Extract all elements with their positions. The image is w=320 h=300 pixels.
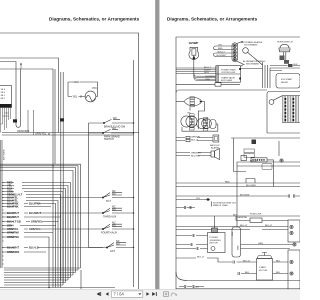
wires to oval [216, 46, 233, 57]
svg-text:GRN/YEL: GRN/YEL [31, 219, 43, 223]
connector oval P2 [214, 41, 245, 65]
svg-text:NO: NO [113, 117, 117, 120]
svg-text:POWER: POWER [210, 237, 219, 239]
svg-text:BLK: BLK [294, 64, 299, 66]
svg-text:NO: NO [112, 208, 116, 211]
svg-text:GRN/YEL: GRN/YEL [7, 227, 19, 231]
relay backup alarm [213, 135, 219, 142]
long wires lower [176, 183, 300, 187]
svg-text:ALTERNATOR W/REG: ALTERNATOR W/REG [243, 60, 266, 63]
svg-text:BLK-LT: BLK-LT [191, 139, 199, 141]
svg-text:BLU/GRN: BLU/GRN [246, 185, 256, 187]
svg-text:AIR INTAKE HEATER: AIR INTAKE HEATER [241, 41, 263, 44]
svg-text:ORN/ORN: ORN/ORN [17, 129, 29, 133]
wires to psm [176, 236, 208, 249]
page title left [49, 17, 140, 22]
svg-text:HORN SWITCH: HORN SWITCH [277, 42, 293, 44]
svg-text:BLK-LT: BLK-LT [265, 225, 273, 227]
wire BLU/WHT to LIFT [2, 247, 103, 249]
wire ORN/PNK [2, 232, 53, 234]
svg-text:GRN: GRN [258, 243, 263, 245]
enclosure lower lip [176, 90, 267, 93]
connector J1 pin row [0, 104, 12, 107]
svg-text:GRN/ORN: GRN/ORN [7, 250, 19, 254]
wire below PT box [176, 83, 240, 85]
svg-text:BLK-LT: BLK-LT [240, 225, 248, 227]
wire YEL [2, 186, 68, 281]
svg-text:7 / 64: 7 / 64 [114, 292, 125, 297]
wire RED to lamp [68, 82, 98, 97]
wire BLU/WHT to THIRD AUX [2, 212, 89, 214]
wire YEL to lamp [68, 95, 85, 98]
battery junction box right [176, 220, 300, 242]
tool icon 1 [164, 292, 169, 297]
svg-text:MOTOR: MOTOR [210, 243, 219, 245]
wire loop pair [20, 69, 22, 125]
svg-text:FUSE LINK: FUSE LINK [250, 214, 262, 216]
terminal circle [269, 100, 274, 105]
ignition switch S1 [189, 41, 199, 77]
svg-text:GRN/YEL: GRN/YEL [191, 136, 201, 138]
harness nested box tops [0, 164, 81, 275]
wire ORN/PNK 2 [2, 237, 49, 288]
svg-text:BLK: BLK [276, 260, 281, 262]
svg-text:BLU/WHT: BLU/WHT [7, 215, 19, 219]
svg-text:RED: RED [206, 79, 211, 81]
wire GRN/ORN [2, 251, 46, 253]
switch LIFT [103, 240, 134, 253]
svg-text:NO: NO [116, 243, 120, 246]
svg-text:THIRD AUX: THIRD AUX [103, 215, 117, 218]
svg-text:BLK-LT: BLK-LT [243, 260, 251, 262]
wire label column rows [2, 180, 103, 287]
page input box [111, 291, 143, 297]
wire top bus C [0, 69, 53, 288]
connector eye bundle [176, 97, 205, 115]
page title right [167, 17, 258, 22]
wire switch bus vertical [89, 123, 104, 248]
svg-text:GRN/WHT: GRN/WHT [191, 152, 202, 154]
harness outer box right [176, 37, 300, 290]
wire heater diagonal [248, 52, 263, 65]
svg-text:BLK-LT: BLK-LT [204, 67, 212, 69]
switch TILT [89, 190, 134, 203]
PT controller box [216, 66, 241, 83]
svg-text:FOURTH AUX: FOURTH AUX [101, 231, 117, 234]
svg-text:BLACK: BLACK [204, 69, 211, 72]
wire top bus A [0, 58, 59, 133]
wire BLU-LT-GB [2, 221, 59, 223]
wires start motor [176, 258, 288, 274]
svg-text:TRANS VALVE: TRANS VALVE [221, 77, 236, 80]
harness nested box bottoms [4, 268, 81, 285]
svg-text:BLU/WHT: BLU/WHT [7, 245, 19, 249]
splice S1 [13, 119, 17, 122]
svg-text:PIC: PIC [93, 86, 97, 90]
backup alarm wires [176, 135, 220, 150]
long wires mid right [231, 137, 300, 139]
wire lamp feed [67, 82, 69, 97]
svg-text:Diagrams, Schematics, or Arran: Diagrams, Schematics, or Arrangements [49, 17, 140, 22]
solenoid note [176, 198, 237, 207]
svg-text:Diagrams, Schematics, or Arran: Diagrams, Schematics, or Arrangements [167, 17, 258, 22]
svg-text:GRN: GRN [204, 72, 209, 74]
wire right inner vertical [133, 60, 135, 287]
svg-text:NO: NO [112, 193, 116, 196]
bottom sweep wire [176, 272, 300, 281]
speaker [176, 149, 220, 160]
svg-text:SWITCH: SWITCH [104, 138, 114, 141]
start motor [176, 250, 300, 290]
svg-text:4WD: 4WD [238, 245, 240, 250]
node arrow junction [20, 64, 22, 69]
wire GRY [2, 225, 56, 227]
svg-text:BLU/WHT: BLU/WHT [217, 55, 228, 57]
inline device on wire [215, 83, 221, 87]
connector J1 block [0, 86, 12, 108]
horn switch [277, 42, 293, 64]
wire top bus B [0, 62, 16, 126]
wire RED [2, 183, 71, 278]
page divider bar [155, 0, 160, 300]
svg-text:BLU/PNK: BLU/PNK [29, 201, 41, 205]
svg-text:BLU-LB: BLU-LB [29, 245, 39, 249]
prev page button [106, 292, 109, 296]
svg-text:ORN/PNK: ORN/PNK [7, 230, 19, 234]
svg-text:CONTROLLER: CONTROLLER [221, 72, 236, 74]
svg-text:WIRE IF USED: WIRE IF USED [213, 205, 228, 207]
next page button [146, 292, 149, 296]
wire vertical pair x56 [55, 69, 63, 283]
bottom inline connector [176, 287, 300, 289]
tool icon 2 [171, 293, 176, 296]
wire bottom verticals [80, 270, 82, 289]
connector block hatched [283, 96, 299, 123]
svg-text:BLU/WHT: BLU/WHT [7, 211, 19, 215]
svg-text:BLU/PNK: BLU/PNK [7, 204, 19, 208]
wire BLU/GRN w connector [176, 195, 300, 197]
last page button [152, 292, 157, 296]
svg-text:NO: NO [112, 127, 116, 130]
svg-text:RED: RED [225, 181, 230, 183]
solenoid right column [232, 227, 296, 257]
svg-text:NO: NO [112, 224, 116, 227]
wire BLU/PNK [2, 204, 56, 288]
alternator label [241, 60, 266, 67]
battery block lower [288, 250, 300, 290]
svg-text:BLK-LT: BLK-LT [197, 256, 205, 258]
junction bundle [241, 62, 301, 88]
wire BLK [2, 189, 66, 283]
harness outer box [0, 33, 139, 289]
wires from J1 pins [1, 108, 11, 133]
wire BLK long [176, 215, 300, 217]
svg-text:1B 4: 1B 4 [1, 89, 6, 91]
svg-text:SW DEMAND: SW DEMAND [244, 44, 258, 47]
svg-text:YEL: YEL [73, 95, 78, 99]
svg-text:SB DEMAND: SB DEMAND [246, 62, 259, 65]
wire GRN [2, 192, 63, 286]
svg-text:4X4 START: 4X4 START [281, 78, 293, 81]
horn terminal blobs [280, 56, 285, 61]
svg-text:BLK: BLK [195, 286, 200, 288]
vertical label WHT/ORN [4, 149, 6, 160]
svg-text:BLK-LT: BLK-LT [218, 51, 226, 53]
wire ORN/ORN [2, 132, 139, 134]
svg-text:BLU/BRN: BLU/BRN [206, 76, 216, 78]
svg-text:LIFT: LIFT [110, 250, 116, 253]
splice S2 [60, 118, 64, 121]
wire fan from ignition [194, 73, 216, 81]
svg-text:RED: RED [218, 48, 223, 50]
relay module sub-circuit [234, 138, 284, 187]
svg-text:GRN/YEL: GRN/YEL [29, 227, 41, 231]
gauge cluster [181, 111, 218, 131]
junction dots right border [48, 122, 134, 288]
svg-text:STEERING: STEERING [210, 240, 221, 242]
svg-text:1G5WP: 1G5WP [189, 41, 199, 45]
svg-text:MOTOR: MOTOR [259, 270, 268, 272]
svg-text:ORN/YEL: ORN/YEL [35, 132, 47, 136]
power steering motor [176, 216, 225, 253]
svg-text:GRN/PNK: GRN/PNK [237, 217, 248, 219]
wire BLU/YEL 2 [2, 201, 58, 288]
svg-text:BLU/YEL: BLU/YEL [191, 155, 201, 157]
corner jog [246, 179, 255, 184]
wire ORN/YEL [2, 134, 134, 136]
relay AIR INTAKE HEATER [241, 41, 263, 65]
wire BLU/WHT 2 [2, 216, 61, 218]
switch BRAKE FLUID SW [89, 117, 134, 129]
svg-text:RELAY: RELAY [281, 81, 289, 84]
wire BLU/PNK 2 [2, 206, 51, 208]
wire GRN/YEL to FOURTH AUX [2, 228, 89, 230]
wire RED/BLU-LT [2, 195, 61, 288]
svg-text:WHT/ORN: WHT/ORN [4, 149, 6, 160]
wires ignition to PT box [176, 68, 216, 73]
svg-text:2B 6: 2B 6 [1, 92, 6, 94]
first page button [97, 292, 102, 296]
svg-text:ORN/PNK: ORN/PNK [7, 235, 19, 239]
svg-text:BLU-LT-GB: BLU-LT-GB [7, 219, 21, 223]
svg-text:RED: RED [74, 80, 80, 84]
connector ticks on left column [2, 183, 4, 265]
wire BLU/YEL to TILT [2, 197, 89, 199]
svg-text:BLU/WHT: BLU/WHT [29, 211, 41, 215]
component left column body [1, 140, 3, 268]
switch THIRD AUX [89, 206, 134, 219]
switch FOURTH AUX [89, 222, 134, 235]
svg-text:BODY ASM: BODY ASM [221, 79, 232, 82]
wire with inline connector [176, 207, 195, 209]
svg-text:BLK: BLK [276, 272, 281, 274]
svg-text:GRY: GRY [7, 223, 13, 227]
lamp PIC [85, 86, 97, 102]
connector enclosure [267, 92, 300, 134]
svg-text:BACK-UP: BACK-UP [210, 144, 220, 147]
svg-text:5B 2: 5B 2 [1, 98, 6, 100]
svg-text:TILT: TILT [106, 200, 111, 203]
switch PARK BRAKE SWITCH [89, 127, 134, 141]
svg-text:BLK: BLK [245, 272, 250, 274]
svg-text:START: START [259, 266, 267, 269]
fuse link [236, 214, 288, 223]
wire bottom rail [0, 287, 115, 289]
svg-text:BLK-LT: BLK-LT [250, 160, 258, 162]
svg-text:3B 1: 3B 1 [1, 95, 6, 97]
relay 4x4 starter [276, 74, 300, 89]
svg-text:BLU/GRN: BLU/GRN [240, 194, 250, 196]
